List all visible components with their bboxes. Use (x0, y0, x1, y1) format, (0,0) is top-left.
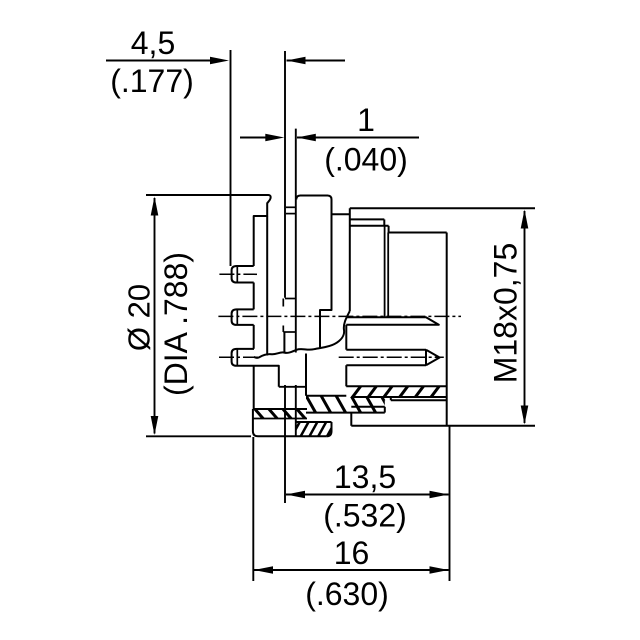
svg-text:13,5: 13,5 (334, 459, 396, 495)
svg-text:Ø 20: Ø 20 (122, 284, 157, 351)
svg-text:(.177): (.177) (110, 63, 194, 99)
svg-text:M18x0,75: M18x0,75 (488, 243, 524, 384)
svg-text:(DIA .788): (DIA .788) (158, 252, 194, 396)
svg-text:16: 16 (334, 535, 370, 571)
svg-text:(.532): (.532) (323, 498, 407, 534)
svg-text:4,5: 4,5 (131, 25, 175, 61)
svg-text:1: 1 (357, 102, 375, 138)
svg-text:(.040): (.040) (324, 142, 408, 178)
svg-text:(.630): (.630) (305, 576, 389, 612)
